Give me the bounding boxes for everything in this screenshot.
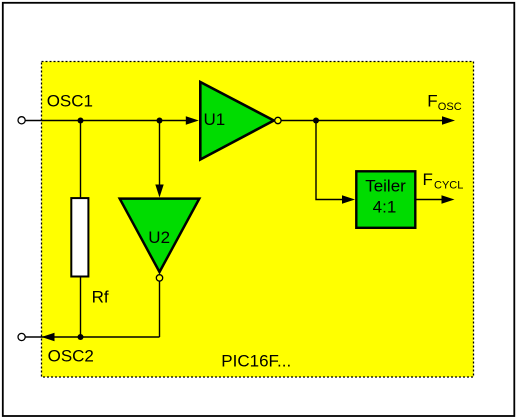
terminal OSC1 <box>18 117 25 124</box>
svg-text:Teiler: Teiler <box>365 177 406 196</box>
wire Teiler output <box>417 199 446 201</box>
wire to U2 input <box>159 121 161 192</box>
junction at OSC2 <box>78 334 84 340</box>
label Fcycl <box>423 170 464 191</box>
svg-text:PIC16F...: PIC16F... <box>221 352 291 371</box>
wire OSC2 <box>25 336 159 338</box>
svg-text:OSC: OSC <box>438 101 462 113</box>
wire U1 output <box>281 120 445 122</box>
wire U2 output down <box>159 281 161 337</box>
junction at Rf branch <box>78 118 84 124</box>
svg-text:OSC2: OSC2 <box>48 347 94 366</box>
svg-text:U2: U2 <box>148 228 170 247</box>
svg-text:CYCL: CYCL <box>434 179 463 191</box>
PIC16F device boundary <box>42 62 474 378</box>
label Fosc <box>427 92 461 113</box>
divider Teiler 4:1 <box>356 171 415 228</box>
arrowhead into Teiler <box>342 195 355 203</box>
arrowhead into U2 <box>155 185 163 198</box>
resistor Rf <box>71 198 88 276</box>
arrowhead Fosc <box>442 116 455 124</box>
wire OSC1 input <box>25 120 196 122</box>
U2 output bubble <box>156 275 162 281</box>
node OSC2 label <box>48 347 94 366</box>
label Rf <box>92 288 109 307</box>
wire Rf bottom <box>80 278 82 338</box>
wire to Rf top <box>80 121 82 199</box>
arrowhead OSC2 out <box>42 333 55 341</box>
svg-text:U1: U1 <box>204 110 226 129</box>
terminal OSC2 <box>18 333 25 340</box>
wire down to Teiler <box>316 121 345 200</box>
junction at U2 branch <box>157 118 163 124</box>
svg-text:OSC1: OSC1 <box>47 92 93 111</box>
U1 output bubble <box>275 117 281 123</box>
arrowhead Fcycl <box>442 195 455 203</box>
svg-text:F: F <box>423 170 433 189</box>
junction at Teiler branch <box>313 118 319 124</box>
op-amp U2 <box>120 199 200 272</box>
svg-text:4:1: 4:1 <box>373 198 397 217</box>
node OSC1 label <box>47 92 93 111</box>
svg-text:F: F <box>427 92 437 111</box>
op-amp U1 <box>200 82 273 160</box>
svg-text:Rf: Rf <box>92 288 109 307</box>
arrowhead into U1 <box>186 116 199 124</box>
label PIC16F... <box>221 352 291 371</box>
